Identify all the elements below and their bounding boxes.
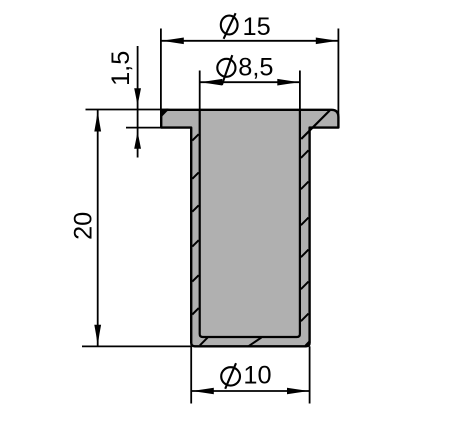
part silhouette (flanged bushing section) [161, 110, 338, 346]
dimension Ø8,5: dimension line [200, 81, 300, 83]
dimension 1,5: extension line bottom [126, 127, 161, 129]
hatch left flange corner (solid wedge) [160, 109, 169, 119]
dimension Ø10: arrows [192, 388, 214, 395]
svg-text:15: 15 [243, 13, 271, 41]
dimension Ø8,5: diameter symbol [217, 55, 235, 85]
dimension Ø15: dimension line [161, 40, 338, 42]
dimension Ø15: arrows [162, 38, 184, 45]
dimension 20: arrows [94, 111, 101, 132]
dimension Ø15: diameter symbol [221, 13, 238, 39]
dimension Ø15: extension lines [161, 29, 339, 117]
dimension Ø8,5: arrows [200, 79, 222, 86]
dimension 1,5: extension line top (shared with 20) [86, 109, 169, 111]
svg-text:1,5: 1,5 [107, 51, 135, 86]
dimension Ø10: dimension line [191, 390, 309, 392]
hatch right wall [301, 150, 309, 321]
dimension Ø10: extension lines [191, 346, 309, 403]
dimension 1,5: arrows [134, 88, 141, 106]
dimension Ø8,5: extension lines [200, 71, 300, 110]
svg-text:8,5: 8,5 [238, 54, 273, 82]
hatch right flange diagonal [301, 110, 330, 139]
bore (blind hole) outline [200, 110, 300, 337]
dimension 1,5: dimension line [86, 46, 169, 158]
dimension 20: extension line bottom [82, 345, 191, 347]
dimension 20: dimension line [82, 110, 191, 347]
svg-text:10: 10 [243, 362, 271, 390]
hatch bottom band [200, 338, 309, 347]
svg-text:20: 20 [69, 212, 97, 240]
hatch left wall [192, 134, 198, 314]
dimension Ø10: diameter symbol [221, 363, 240, 389]
